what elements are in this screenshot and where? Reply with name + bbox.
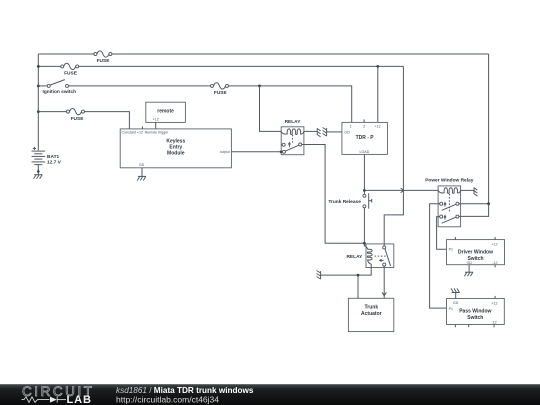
remote box — [146, 102, 186, 122]
logo waveform — [22, 397, 67, 403]
svg-text:+12: +12 — [153, 117, 159, 121]
wire PWS GD stub — [455, 292, 457, 298]
ground chassis relay1 (rotated) — [317, 128, 320, 137]
arrow down trunk actuator — [382, 292, 386, 295]
svg-text:2: 2 — [363, 125, 365, 129]
svg-text:http://circuitlab.com/ct46j34: http://circuitlab.com/ct46j34 — [116, 395, 219, 405]
svg-text:12.7 V: 12.7 V — [47, 159, 62, 165]
svg-text:LAB: LAB — [67, 394, 92, 405]
svg-text:ksd1861 / Miata TDR trunk wind: ksd1861 / Miata TDR trunk windows — [116, 386, 254, 395]
wire DWS GD stub — [468, 265, 470, 273]
svg-text:output: output — [220, 150, 230, 154]
wire row3 stub to switch — [38, 85, 47, 87]
node rail-row3 junction — [37, 85, 40, 88]
wire TDR +12 feed — [377, 66, 379, 122]
keyless entry module U1 — [120, 129, 231, 168]
trunk actuator box — [348, 298, 393, 331]
pin stub PWS bottom 3 — [493, 325, 495, 328]
svg-text:BAT1: BAT1 — [47, 154, 60, 160]
wire row1 to right corner — [112, 53, 489, 55]
svg-text:LOAD: LOAD — [360, 150, 370, 154]
ground chassis TDR GD (rotated) — [323, 128, 327, 137]
node row2 TDR +12 tap — [376, 65, 379, 68]
wire PWR pole2 left to driver window switch — [437, 217, 447, 250]
wire row3 middle — [69, 85, 213, 87]
svg-text:-12: -12 — [491, 321, 496, 325]
wire row4 left segment — [38, 111, 68, 113]
svg-text:-12: -12 — [492, 261, 497, 265]
logo LAB — [67, 394, 92, 405]
wire remote to keyless trigger — [155, 122, 157, 128]
svg-text:Trunk Release: Trunk Release — [328, 199, 361, 205]
svg-text:RELAY: RELAY — [346, 254, 363, 260]
svg-text:GD: GD — [344, 131, 350, 135]
power window relay K3 — [425, 178, 474, 227]
svg-text:P1: P1 — [449, 248, 453, 252]
svg-text:remote: remote — [157, 108, 174, 114]
svg-text:FUSE: FUSE — [71, 116, 85, 122]
svg-text:Switch: Switch — [467, 315, 483, 321]
footer url text — [116, 395, 219, 405]
pin stub DWS +12 top — [494, 237, 496, 240]
node trunk actuator tap — [357, 274, 360, 277]
wire TDR LOAD down — [363, 154, 365, 194]
wire keyless output to relay1 common — [231, 151, 282, 153]
battery BAT1 — [32, 147, 62, 166]
ground chassis below DWS — [464, 272, 473, 276]
svg-text:FUSE: FUSE — [64, 71, 78, 77]
wire relay1 coil feed — [260, 86, 282, 131]
wire keyless GD stub — [141, 168, 143, 177]
TDR-P module U2 — [342, 122, 388, 154]
ground chassis trunk row (rotated) — [317, 271, 321, 280]
svg-text:FUSE: FUSE — [97, 58, 111, 64]
wire left battery rail — [37, 54, 39, 150]
ground chassis below keyless — [137, 176, 146, 180]
pin stub keyless unused top — [141, 126, 143, 128]
svg-text:1: 1 — [350, 125, 352, 129]
svg-text:Ignition switch: Ignition switch — [43, 89, 77, 95]
node rail-row4 junction — [37, 110, 40, 113]
ground chassis below battery — [34, 175, 43, 179]
node row3 relay1 tap — [258, 85, 261, 88]
svg-text:Driver Window: Driver Window — [458, 250, 493, 256]
svg-text:Constant +12: Constant +12 — [122, 131, 143, 135]
svg-text:RELAY: RELAY — [285, 119, 302, 125]
wire PWR coil to ground — [461, 189, 474, 191]
wire battery to ground — [37, 165, 39, 175]
svg-text:Pass Window: Pass Window — [459, 308, 491, 314]
node rail-row2 junction — [37, 65, 40, 68]
pass window switch box — [447, 299, 505, 325]
node relay1 common — [280, 151, 283, 154]
svg-text:P1: P1 — [449, 307, 453, 311]
pushbutton trunk release — [328, 193, 371, 208]
wire relay1 coil to ground — [304, 130, 317, 132]
wire PWR pole1 right to rail1 — [459, 203, 489, 205]
svg-text:Actuator: Actuator — [361, 311, 382, 317]
svg-text:GD: GD — [453, 301, 459, 305]
node battery ground — [37, 170, 40, 173]
svg-text:+12: +12 — [491, 243, 497, 247]
fuse F4 — [67, 108, 85, 121]
wire TDR GD stub — [327, 131, 342, 133]
logo CIRCUIT — [22, 384, 92, 399]
wire relay1 NO to trunk release row — [302, 145, 365, 244]
wire trunk actuator left pin — [357, 275, 359, 298]
node relay2 coil junction — [363, 242, 366, 245]
svg-text:Trunk: Trunk — [364, 305, 378, 311]
svg-text:Module: Module — [167, 150, 185, 156]
pin stub DWS -12 bottom — [494, 265, 496, 268]
fuse F1 — [94, 51, 112, 64]
svg-text:GD: GD — [139, 163, 145, 167]
svg-text:+12: +12 — [491, 301, 497, 305]
pin stub PWS bottom 2 — [468, 325, 470, 328]
node LOAD junction — [363, 189, 366, 192]
svg-text:+12: +12 — [375, 125, 381, 129]
node rail1 PWR junction — [487, 202, 490, 205]
fuse F3 — [211, 83, 229, 96]
wire relay2 NO to trunk actuator — [383, 266, 385, 298]
svg-text:Remote trigger: Remote trigger — [145, 131, 170, 135]
arrow right at rail2 junction — [401, 188, 404, 192]
switch SW ignition — [43, 80, 77, 95]
ground chassis above PWS (inverted) — [451, 288, 460, 292]
pin stub PWS bottom 1 — [454, 325, 456, 328]
wire PWR pole1 left to pass window switch — [430, 204, 447, 308]
pin stub PWS +12 top — [494, 296, 496, 299]
wire trunk release to relay2 junction — [363, 208, 365, 247]
driver window switch box — [447, 240, 505, 266]
relay K2 — [346, 243, 393, 267]
footer bar — [0, 384, 540, 405]
wire row4 to keyless module — [85, 112, 130, 129]
relay K1 — [281, 119, 304, 155]
wire right rail 2 down to relay2 common — [384, 66, 403, 245]
svg-text:GD: GD — [467, 261, 473, 265]
svg-text:FUSE: FUSE — [214, 90, 228, 96]
wire row1 top left segment — [38, 53, 95, 55]
wire LOAD row to power window relay coil — [364, 189, 438, 191]
wire relay2 coil to ground row — [321, 268, 372, 276]
footer title text — [116, 386, 254, 395]
pin stub DWS top left — [454, 237, 456, 240]
wire row2 to right — [79, 65, 404, 67]
fuse F2 — [61, 63, 79, 76]
ground chassis PWR (rotated) — [474, 188, 477, 197]
wire row2 left segment — [38, 65, 62, 67]
svg-text:Power Window Relay: Power Window Relay — [425, 178, 474, 184]
svg-text:TDR - P: TDR - P — [356, 135, 375, 141]
pin stub TDR pin2 — [363, 119, 365, 122]
wire row3 to TDR pin1 — [229, 86, 352, 123]
wire right rail from row1 down — [459, 54, 489, 216]
